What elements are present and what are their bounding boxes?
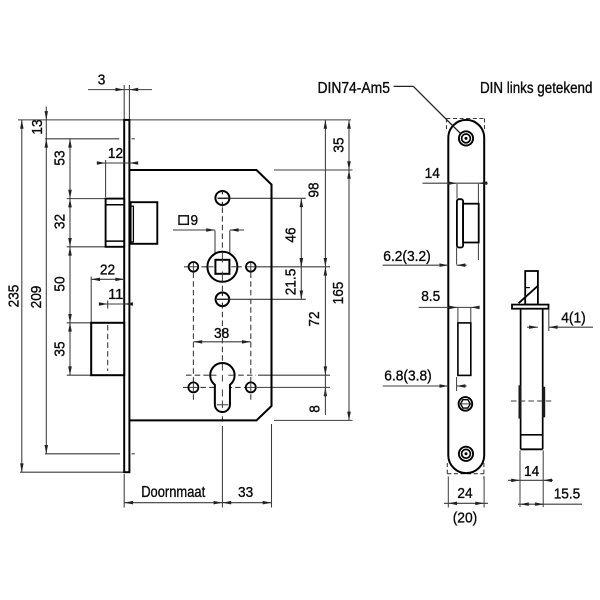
extension line deadbolt bottom left (67, 374, 91, 376)
svg-text:6.8(3.8): 6.8(3.8) (384, 368, 431, 385)
centerline horizontal follower (184, 266, 246, 268)
svg-text:35: 35 (331, 137, 348, 152)
faceplate edge top view (512, 305, 549, 309)
centerline horizontal side holes (183, 386, 245, 388)
middle screw hole (216, 293, 230, 307)
follower square 9mm (215, 260, 229, 274)
extension line square right (229, 231, 231, 259)
svg-text:33: 33 (238, 484, 253, 501)
centerline horizontal cylinder (186, 374, 256, 376)
dim 4(1) ext (548, 310, 550, 332)
dim 53/32/50/35 line (69, 139, 71, 375)
dim Doornmaat line (124, 502, 222, 504)
dim 21.5 line (300, 259, 302, 299)
extension line square left (214, 231, 216, 259)
faceplate side view (124, 120, 129, 472)
dim 24 ext (447, 477, 449, 508)
extension line faceplate below (123, 474, 125, 508)
right follower hole ticks (247, 266, 256, 268)
dim 13/209 line (45, 107, 47, 454)
dim 11 line (100, 303, 108, 305)
svg-text:50: 50 (52, 276, 69, 291)
case column left edge (520, 309, 522, 450)
extension line deadbolt tip (90, 277, 92, 323)
bottom mounting screw (459, 447, 473, 461)
follower circle (207, 252, 237, 282)
top mounting screw (459, 131, 473, 145)
extension line case top right (274, 169, 353, 171)
extension line middle screw right (230, 298, 306, 300)
svg-text:6.2(3.2): 6.2(3.2) (383, 248, 430, 265)
left cylinder hole ticks (189, 386, 198, 388)
top mounting screw dot (465, 137, 468, 140)
extension line cylinder center right (258, 374, 330, 376)
right view ext lines (519, 451, 521, 508)
extension line deadbolt top left (67, 322, 91, 324)
latch head notch (525, 287, 530, 289)
lock case outline (129, 170, 271, 420)
dim 6.8 line (383, 385, 449, 387)
dim 38 line (193, 341, 250, 343)
svg-text:38: 38 (214, 325, 229, 342)
dim 3 line (88, 89, 152, 91)
deadbolt side view (91, 323, 124, 375)
euro cylinder hole (210, 363, 234, 412)
dim 35 top right line (348, 120, 350, 170)
top screw hole (215, 191, 229, 205)
dim 33 line (222, 502, 271, 504)
latch body inside case (131, 202, 158, 244)
latch front bevel strip (457, 199, 463, 247)
svg-text:46: 46 (283, 227, 300, 242)
centerline vertical main (221, 190, 223, 424)
extension line top screw right (230, 197, 306, 199)
svg-text:165: 165 (330, 282, 347, 305)
dim square9 line (173, 229, 215, 231)
dim 22 line (91, 278, 124, 280)
extension line faceplate top rounding (45, 138, 119, 140)
dim 8.5 ext (457, 307, 459, 322)
svg-text:32: 32 (52, 214, 69, 229)
extension line faceplate bottom rounding (45, 453, 120, 455)
bottom block top (521, 434, 543, 436)
dim 24 line (444, 502, 488, 504)
svg-text:(20): (20) (453, 510, 478, 527)
extension line faceplate bottom (20, 471, 126, 473)
svg-text:3: 3 (98, 72, 106, 89)
extension line latch tip vertical (105, 160, 107, 197)
dim 14 mid line (423, 182, 488, 184)
dim square9 symbol (179, 216, 188, 225)
svg-text:11: 11 (108, 286, 123, 303)
svg-text:22: 22 (100, 262, 115, 279)
svg-text:14: 14 (524, 463, 539, 480)
detail box top dashed (446, 118, 484, 120)
svg-text:4(1): 4(1) (561, 310, 586, 327)
extension line faceplate top (18, 119, 351, 121)
dim 4(1) line (527, 326, 538, 328)
case column right edge (542, 309, 544, 450)
latch bolt bevel bottom (106, 240, 125, 242)
extension line faceplate thickness right (128, 85, 130, 120)
extension line follower right (257, 266, 331, 268)
svg-text:15.5: 15.5 (554, 486, 581, 503)
latch collar (131, 206, 134, 242)
extension line centerline below case (221, 426, 223, 508)
svg-text:14: 14 (425, 165, 440, 182)
left guide band (519, 385, 522, 418)
follower center ticks (221, 252, 223, 262)
cylinder center ticks (221, 364, 223, 371)
dim 8.5 line (419, 306, 480, 308)
svg-text:8: 8 (307, 405, 324, 413)
svg-text:Doornmaat: Doornmaat (141, 484, 206, 501)
dim 15.5 line (518, 503, 582, 505)
bottom mounting screw ring (462, 449, 471, 458)
centerline deadbolt (107, 325, 109, 371)
hex screw ticks (461, 403, 470, 405)
extension line case bottom right (274, 419, 353, 421)
dim 46 line (300, 198, 302, 266)
deadbolt slot front (458, 323, 471, 376)
svg-text:35: 35 (52, 341, 69, 356)
extension line deadbolt center stub (107, 301, 109, 309)
top mounting screw ring (462, 134, 471, 143)
svg-text:72: 72 (306, 311, 323, 326)
svg-text:DIN links getekend: DIN links getekend (480, 80, 593, 97)
svg-text:209: 209 (28, 286, 45, 309)
svg-text:98: 98 (306, 182, 323, 197)
extension line faceplate thickness left (123, 85, 125, 120)
dim 14 mid ext (456, 184, 458, 199)
hex socket (461, 400, 471, 408)
right cylinder hole (246, 382, 256, 392)
svg-text:9: 9 (191, 212, 199, 229)
extension line latch top left (67, 198, 105, 200)
latch bolt protruding (106, 199, 125, 247)
dim 8 line (324, 375, 326, 397)
dim 6.2 line (383, 264, 449, 266)
latch front face (463, 204, 479, 243)
extension line latch bottom left (67, 246, 105, 248)
latch bolt bevel top (106, 204, 125, 206)
svg-text:235: 235 (6, 285, 23, 308)
dim 165 line (348, 170, 350, 420)
right follower hole (246, 262, 256, 272)
latch head bevel diagonal (519, 286, 538, 303)
dim 98 line (324, 120, 326, 267)
dim 12 line (97, 162, 138, 164)
svg-text:21.5: 21.5 (283, 269, 300, 296)
leader line DIN74-Am5 (394, 85, 414, 87)
dim 235 line (21, 120, 23, 472)
right cylinder hole ticks (246, 386, 255, 388)
dim 6.2 ext (456, 248, 458, 265)
extension line case right below (271, 424, 273, 508)
detail box bottom dashed (447, 473, 484, 475)
top screw center tick (221, 191, 223, 195)
middle screw center tick (221, 293, 223, 296)
dim 72 line (324, 267, 326, 375)
extension line side holes right (257, 386, 330, 388)
left cylinder hole (188, 382, 198, 392)
svg-text:24: 24 (457, 485, 472, 502)
hex adjustment screw (459, 397, 473, 411)
svg-text:13: 13 (29, 119, 46, 134)
svg-text:12: 12 (108, 145, 123, 162)
right guide band (542, 387, 545, 418)
bottom mounting screw dot (465, 452, 468, 455)
dim 6.8 ext (456, 377, 458, 391)
left follower hole (189, 262, 199, 272)
centerline right view (511, 400, 554, 402)
svg-text:53: 53 (52, 150, 69, 165)
dim 14 right line (508, 479, 553, 481)
left follower hole ticks (189, 266, 198, 268)
svg-text:8.5: 8.5 (421, 288, 440, 305)
deadbolt centerline (107, 325, 109, 371)
svg-text:DIN74-Am5: DIN74-Am5 (317, 80, 390, 97)
centerline vertical left holes (192, 273, 194, 403)
latch head top view (525, 271, 538, 305)
centerline vertical right holes (250, 273, 252, 403)
bottom block bottom (521, 448, 543, 450)
faceplate front view (448, 120, 484, 473)
